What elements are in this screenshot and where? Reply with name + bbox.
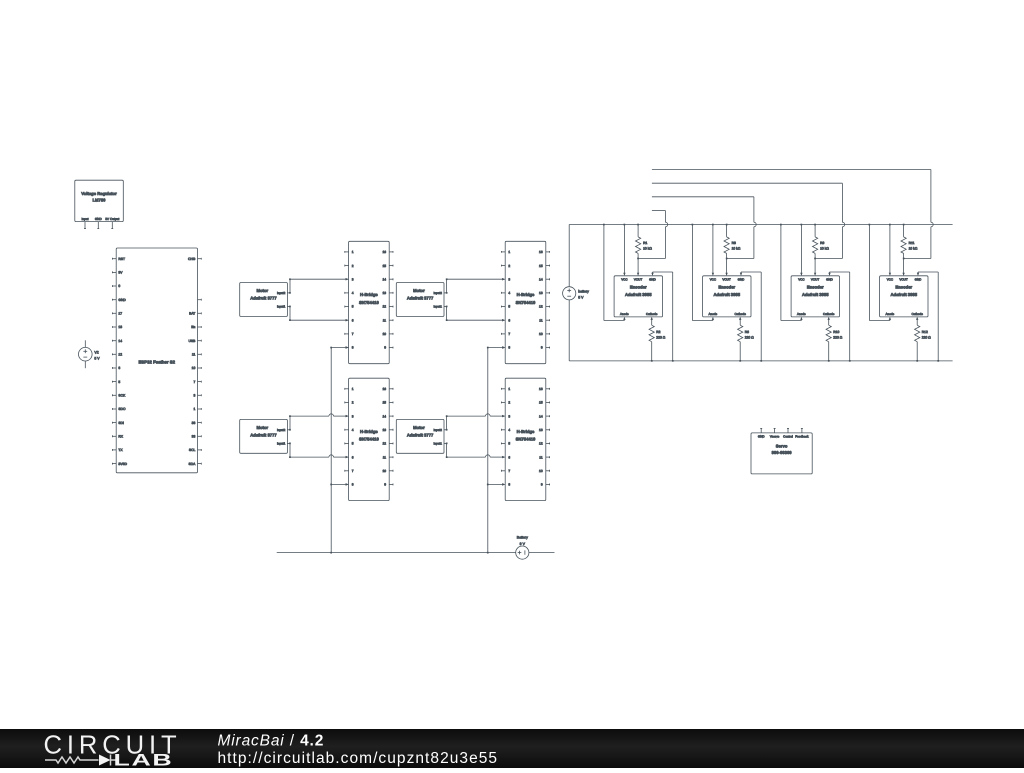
- svg-text:VOUT: VOUT: [899, 278, 908, 282]
- svg-text:LAB: LAB: [113, 751, 173, 768]
- svg-text:http://circuitlab.com/cupznt82: http://circuitlab.com/cupznt82u3e55: [218, 750, 499, 767]
- svg-text:13: 13: [539, 428, 543, 432]
- svg-text:17: 17: [118, 312, 122, 316]
- svg-text:11: 11: [383, 318, 387, 322]
- svg-text:9 V: 9 V: [520, 542, 526, 546]
- svg-text:5: 5: [508, 442, 510, 446]
- svg-text:7: 7: [352, 332, 354, 336]
- svg-text:220 Ω: 220 Ω: [656, 335, 665, 339]
- svg-text:3: 3: [352, 277, 354, 281]
- svg-text:4: 4: [352, 291, 354, 295]
- svg-text:2: 2: [508, 264, 510, 268]
- svg-text:3VSD: 3VSD: [118, 462, 127, 466]
- svg-text:16: 16: [539, 387, 543, 391]
- svg-text:Input1: Input1: [277, 442, 286, 446]
- svg-text:Anode: Anode: [709, 312, 718, 316]
- svg-text:VCC: VCC: [621, 278, 628, 282]
- svg-text:10: 10: [382, 469, 386, 473]
- svg-text:R6: R6: [745, 330, 749, 334]
- svg-text:11: 11: [383, 455, 387, 459]
- svg-text:5V Output: 5V Output: [105, 217, 119, 221]
- svg-text:Adafruit 3985: Adafruit 3985: [625, 292, 652, 297]
- svg-text:H-Bridge: H-Bridge: [517, 292, 535, 297]
- svg-text:R9: R9: [820, 241, 824, 245]
- svg-text:En: En: [191, 325, 195, 329]
- svg-text:3: 3: [352, 414, 354, 418]
- svg-text:38: 38: [192, 421, 196, 425]
- svg-text:7: 7: [352, 469, 354, 473]
- svg-text:3: 3: [193, 394, 195, 398]
- svg-text:Cathode: Cathode: [735, 312, 747, 316]
- svg-text:Vservo: Vservo: [770, 435, 780, 439]
- svg-text:Anode: Anode: [886, 312, 895, 316]
- svg-text:1: 1: [352, 250, 354, 254]
- svg-text:10 kΩ: 10 kΩ: [732, 246, 741, 250]
- svg-text:16: 16: [382, 250, 386, 254]
- svg-text:3: 3: [508, 414, 510, 418]
- svg-text:Input2: Input2: [434, 428, 443, 432]
- svg-text:Adafruit 3985: Adafruit 3985: [714, 292, 741, 297]
- svg-text:Encoder: Encoder: [630, 285, 647, 290]
- svg-text:10 kΩ: 10 kΩ: [909, 246, 918, 250]
- svg-text:SN754410: SN754410: [359, 300, 379, 305]
- svg-text:7: 7: [193, 380, 195, 384]
- svg-text:12: 12: [382, 305, 386, 309]
- svg-text:1: 1: [193, 407, 195, 411]
- svg-text:GND: GND: [915, 278, 923, 282]
- svg-text:Cathode: Cathode: [646, 312, 658, 316]
- svg-text:9: 9: [384, 346, 386, 350]
- svg-text:6: 6: [352, 318, 354, 322]
- svg-text:SN754410: SN754410: [359, 437, 379, 442]
- svg-text:Input1: Input1: [277, 305, 286, 309]
- svg-text:1: 1: [508, 387, 510, 391]
- svg-text:10: 10: [382, 332, 386, 336]
- svg-text:8: 8: [352, 346, 354, 350]
- svg-text:RX: RX: [118, 435, 123, 439]
- svg-text:Anode: Anode: [797, 312, 806, 316]
- svg-text:33: 33: [192, 435, 196, 439]
- svg-text:SCL: SCL: [189, 448, 196, 452]
- svg-text:Motor: Motor: [256, 425, 268, 430]
- svg-text:15: 15: [539, 401, 543, 405]
- svg-text:Cathode: Cathode: [912, 312, 924, 316]
- svg-text:Adafruit 3985: Adafruit 3985: [802, 292, 829, 297]
- svg-text:Control: Control: [783, 435, 793, 439]
- svg-text:1: 1: [352, 387, 354, 391]
- svg-text:Input1: Input1: [434, 305, 443, 309]
- svg-text:11: 11: [539, 318, 543, 322]
- svg-text:R8: R8: [732, 241, 736, 245]
- svg-text:12: 12: [382, 442, 386, 446]
- svg-text:900-00360: 900-00360: [772, 450, 793, 455]
- svg-text:Adafruit 3777: Adafruit 3777: [250, 433, 277, 438]
- svg-text:14: 14: [539, 414, 543, 418]
- svg-text:12: 12: [118, 353, 122, 357]
- svg-text:11: 11: [539, 455, 543, 459]
- svg-text:USB: USB: [189, 339, 197, 343]
- svg-text:8: 8: [508, 346, 510, 350]
- svg-text:Input2: Input2: [277, 428, 286, 432]
- svg-text:5: 5: [352, 442, 354, 446]
- svg-text:Adafruit 3985: Adafruit 3985: [891, 292, 918, 297]
- svg-text:H-Bridge: H-Bridge: [360, 429, 378, 434]
- svg-text:MiracBai / 4.2: MiracBai / 4.2: [218, 733, 325, 750]
- svg-text:Input1: Input1: [434, 442, 443, 446]
- svg-text:8: 8: [508, 483, 510, 487]
- svg-text:Input: Input: [82, 217, 89, 221]
- svg-text:12: 12: [539, 305, 543, 309]
- svg-text:R1: R1: [643, 241, 647, 245]
- svg-text:R10: R10: [833, 330, 839, 334]
- svg-text:VCC: VCC: [798, 278, 805, 282]
- svg-text:6: 6: [508, 318, 510, 322]
- svg-text:Encoder: Encoder: [718, 285, 735, 290]
- svg-text:SDO: SDO: [118, 407, 126, 411]
- svg-text:R11: R11: [909, 241, 915, 245]
- svg-text:VCC: VCC: [887, 278, 894, 282]
- svg-text:SDI: SDI: [118, 421, 124, 425]
- svg-text:Encoder: Encoder: [807, 285, 824, 290]
- svg-text:2: 2: [508, 401, 510, 405]
- svg-text:Anode: Anode: [620, 312, 629, 316]
- svg-text:6: 6: [118, 366, 120, 370]
- svg-text:13: 13: [382, 428, 386, 432]
- svg-text:Motor: Motor: [256, 288, 268, 293]
- svg-text:GND: GND: [738, 278, 746, 282]
- svg-text:RST: RST: [118, 257, 125, 261]
- svg-text:9: 9: [384, 483, 386, 487]
- svg-text:7: 7: [508, 469, 510, 473]
- svg-text:10: 10: [539, 332, 543, 336]
- svg-text:Voltage Regulator: Voltage Regulator: [81, 191, 117, 196]
- svg-text:5: 5: [508, 305, 510, 309]
- svg-text:10: 10: [539, 469, 543, 473]
- svg-text:3: 3: [508, 277, 510, 281]
- svg-text:14: 14: [118, 339, 122, 343]
- svg-text:VCC: VCC: [710, 278, 717, 282]
- svg-text:16: 16: [382, 387, 386, 391]
- svg-text:5 V: 5 V: [94, 357, 100, 361]
- svg-text:Input2: Input2: [277, 291, 286, 295]
- svg-text:14: 14: [539, 277, 543, 281]
- svg-text:GND: GND: [118, 298, 126, 302]
- svg-text:10 kΩ: 10 kΩ: [820, 246, 829, 250]
- svg-text:15: 15: [539, 264, 543, 268]
- svg-text:220 Ω: 220 Ω: [922, 335, 931, 339]
- svg-text:4: 4: [352, 428, 354, 432]
- svg-text:7: 7: [508, 332, 510, 336]
- svg-text:220 Ω: 220 Ω: [833, 335, 842, 339]
- svg-text:11: 11: [192, 353, 196, 357]
- svg-text:VOUT: VOUT: [722, 278, 731, 282]
- svg-text:ESP32 Feather S2: ESP32 Feather S2: [139, 359, 176, 364]
- svg-text:14: 14: [382, 277, 386, 281]
- svg-text:10: 10: [192, 366, 196, 370]
- svg-text:18: 18: [118, 325, 122, 329]
- svg-text:GND: GND: [758, 435, 766, 439]
- svg-text:BAT: BAT: [189, 312, 195, 316]
- svg-text:SCK: SCK: [118, 394, 126, 398]
- svg-text:Cathode: Cathode: [823, 312, 835, 316]
- svg-text:2: 2: [352, 264, 354, 268]
- svg-text:Motor: Motor: [413, 288, 425, 293]
- svg-text:15: 15: [382, 401, 386, 405]
- svg-text:Adafruit 3777: Adafruit 3777: [250, 296, 277, 301]
- svg-text:15: 15: [382, 264, 386, 268]
- svg-text:Feedback: Feedback: [795, 435, 809, 439]
- svg-text:SN754410: SN754410: [516, 437, 536, 442]
- svg-text:Adafruit 3777: Adafruit 3777: [407, 433, 434, 438]
- svg-text:H-Bridge: H-Bridge: [517, 429, 535, 434]
- svg-text:0: 0: [118, 284, 120, 288]
- svg-text:Input2: Input2: [434, 291, 443, 295]
- svg-text:CHG: CHG: [188, 257, 196, 261]
- svg-text:V2: V2: [94, 350, 98, 354]
- svg-text:220 Ω: 220 Ω: [745, 335, 754, 339]
- svg-text:4: 4: [508, 428, 510, 432]
- svg-text:SN754410: SN754410: [516, 300, 536, 305]
- svg-text:Adafruit 3777: Adafruit 3777: [407, 296, 434, 301]
- svg-text:16: 16: [539, 250, 543, 254]
- svg-text:Servo: Servo: [776, 443, 788, 448]
- svg-text:Encoder: Encoder: [895, 285, 912, 290]
- svg-text:6: 6: [508, 455, 510, 459]
- svg-text:SDA: SDA: [189, 462, 197, 466]
- svg-text:battery: battery: [578, 289, 589, 293]
- svg-text:12: 12: [539, 442, 543, 446]
- svg-text:Battery: Battery: [517, 536, 528, 540]
- svg-text:8: 8: [352, 483, 354, 487]
- svg-text:9: 9: [541, 346, 543, 350]
- svg-text:13: 13: [539, 291, 543, 295]
- svg-text:R12: R12: [922, 330, 928, 334]
- svg-text:4: 4: [508, 291, 510, 295]
- svg-text:9: 9: [541, 483, 543, 487]
- svg-text:6: 6: [352, 455, 354, 459]
- svg-text:13: 13: [382, 291, 386, 295]
- svg-text:5 V: 5 V: [578, 296, 584, 300]
- svg-text:5: 5: [118, 380, 120, 384]
- svg-text:H-Bridge: H-Bridge: [360, 292, 378, 297]
- svg-text:VOUT: VOUT: [634, 278, 643, 282]
- svg-text:2: 2: [352, 401, 354, 405]
- svg-text:5: 5: [352, 305, 354, 309]
- svg-text:10 kΩ: 10 kΩ: [643, 246, 652, 250]
- svg-text:R2: R2: [656, 330, 660, 334]
- svg-text:LM780: LM780: [92, 198, 106, 203]
- svg-text:Motor: Motor: [413, 425, 425, 430]
- svg-text:GND: GND: [649, 278, 657, 282]
- svg-text:14: 14: [382, 414, 386, 418]
- svg-text:1: 1: [508, 250, 510, 254]
- svg-text:GND: GND: [826, 278, 834, 282]
- svg-text:GND: GND: [95, 217, 103, 221]
- svg-text:VOUT: VOUT: [811, 278, 820, 282]
